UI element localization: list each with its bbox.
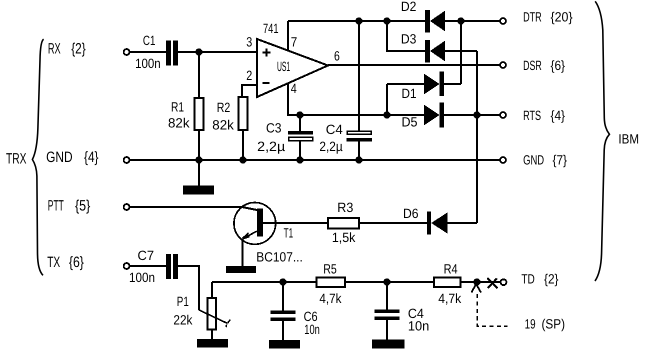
resistor R1 bbox=[194, 98, 203, 130]
ground symbol under C6 bbox=[269, 340, 300, 349]
svg-text:{4}: {4} bbox=[551, 108, 566, 123]
capacitor C7 bbox=[166, 254, 178, 279]
wire PTT to T1 base bbox=[130, 207, 257, 210]
svg-text:R1: R1 bbox=[171, 100, 184, 115]
node ground/R1 bbox=[195, 156, 202, 163]
wire D5 cathode to RTS bbox=[444, 114, 500, 116]
potentiometer P1 wiper arrow bbox=[199, 310, 228, 323]
op-amp U1 triangle bbox=[257, 39, 328, 97]
wire D1 anode lead bbox=[387, 83, 424, 85]
svg-text:{6}: {6} bbox=[69, 254, 84, 271]
svg-text:4,7k: 4,7k bbox=[438, 291, 461, 306]
svg-text:C1: C1 bbox=[143, 33, 156, 48]
svg-text:{5}: {5} bbox=[75, 197, 90, 214]
brace IBM right bbox=[595, 1, 609, 281]
svg-text:22k: 22k bbox=[173, 312, 192, 327]
svg-text:1,5k: 1,5k bbox=[332, 230, 356, 245]
svg-text:82k: 82k bbox=[168, 115, 190, 130]
svg-text:D1: D1 bbox=[402, 86, 417, 101]
svg-text:{2}: {2} bbox=[544, 271, 559, 286]
node row/C6 bbox=[279, 278, 286, 285]
svg-text:2,2µ: 2,2µ bbox=[257, 139, 285, 154]
wire pin 7 to top rail bbox=[287, 21, 289, 51]
svg-text:(SP): (SP) bbox=[542, 317, 566, 332]
terminal TD bbox=[501, 279, 507, 285]
svg-text:2,2µ: 2,2µ bbox=[319, 139, 342, 154]
svg-text:R4: R4 bbox=[444, 261, 458, 276]
svg-text:741: 741 bbox=[263, 21, 279, 36]
terminal DTR bbox=[500, 18, 506, 24]
svg-text:P1: P1 bbox=[177, 294, 189, 309]
svg-text:RTS: RTS bbox=[523, 108, 541, 123]
op-amp plus sign bbox=[263, 49, 271, 57]
svg-text:{2}: {2} bbox=[71, 40, 86, 57]
svg-text:10n: 10n bbox=[408, 319, 429, 334]
ground symbol under C4 bbox=[372, 340, 404, 349]
svg-text:100n: 100n bbox=[129, 270, 155, 285]
wire node to R1 bbox=[198, 52, 200, 98]
transistor T1 bbox=[234, 203, 276, 245]
capacitor C4 (10n) bbox=[386, 282, 388, 309]
arrowhead under TD node bbox=[471, 285, 481, 293]
diode D3 bbox=[425, 40, 445, 63]
wire R2 to ground rail bbox=[242, 130, 244, 160]
wire D2 to DTR node bbox=[445, 20, 500, 22]
wire D1 cathode to DTR node bbox=[444, 21, 461, 84]
node top rail / C4 bbox=[355, 17, 362, 24]
svg-text:R5: R5 bbox=[323, 261, 337, 276]
svg-text:BC107...: BC107... bbox=[256, 250, 303, 265]
svg-text:{6}: {6} bbox=[551, 58, 566, 73]
diode D2 bbox=[425, 10, 445, 33]
svg-text:6: 6 bbox=[334, 49, 340, 64]
capacitor C1 bbox=[166, 41, 178, 66]
svg-text:RX: RX bbox=[48, 40, 61, 57]
svg-text:GND: GND bbox=[46, 149, 73, 166]
svg-text:4,7k: 4,7k bbox=[319, 291, 341, 306]
terminal GND right bbox=[500, 157, 506, 163]
wire P1 bottom to ground bbox=[211, 330, 213, 340]
svg-text:D6: D6 bbox=[403, 206, 419, 221]
svg-text:D2: D2 bbox=[401, 0, 417, 14]
resistor R5 bbox=[317, 278, 345, 287]
potentiometer P1 body bbox=[207, 298, 216, 329]
svg-text:19: 19 bbox=[525, 317, 536, 332]
wire T1 emitter to ground bbox=[242, 239, 244, 266]
svg-text:T1: T1 bbox=[284, 226, 294, 241]
svg-text:GND: GND bbox=[523, 152, 544, 167]
svg-text:US1: US1 bbox=[277, 59, 290, 74]
node RTS / right vertical bbox=[473, 111, 480, 118]
node ground/C4 bbox=[355, 156, 362, 163]
resistor R4 bbox=[434, 278, 461, 287]
ground symbol under T1 bbox=[226, 266, 256, 273]
node pin4 row / D1 branch bbox=[383, 111, 390, 118]
svg-text:TD: TD bbox=[521, 271, 535, 286]
wire R4 to TD terminal bbox=[461, 281, 501, 283]
svg-text:100n: 100n bbox=[135, 56, 161, 71]
wire RX terminal to C1 bbox=[130, 51, 166, 53]
wire TX terminal to C7 bbox=[130, 265, 166, 267]
wire R5 to R4 bbox=[345, 281, 434, 283]
svg-text:D5: D5 bbox=[402, 114, 418, 129]
wire T1 collector to R3 bbox=[263, 222, 328, 224]
wire op-amp output to DSR bbox=[328, 64, 500, 66]
diode D1 bbox=[424, 72, 444, 97]
node top rail / D3 branch bbox=[383, 17, 390, 24]
svg-text:7: 7 bbox=[291, 35, 298, 50]
svg-text:DTR: DTR bbox=[523, 10, 542, 25]
svg-text:DSR: DSR bbox=[523, 58, 542, 73]
svg-text:4: 4 bbox=[291, 81, 297, 96]
wire R1 to ground rail bbox=[198, 130, 200, 160]
op-amp minus sign bbox=[263, 82, 270, 84]
svg-text:3: 3 bbox=[246, 35, 252, 50]
capacitor C3 bbox=[299, 115, 301, 131]
svg-text:82k: 82k bbox=[212, 118, 234, 133]
svg-text:TX: TX bbox=[47, 254, 60, 271]
svg-text:C4: C4 bbox=[326, 122, 343, 137]
node TD junction bbox=[473, 278, 480, 285]
svg-text:10n: 10n bbox=[304, 322, 320, 337]
ground symbol under rail bbox=[198, 160, 200, 186]
node ground/C3 bbox=[296, 156, 303, 163]
diode D6 bbox=[427, 212, 448, 235]
svg-text:TRX: TRX bbox=[6, 151, 27, 168]
wire P1 top to signal row bbox=[211, 282, 213, 298]
capacitor C4 (2,2u) bbox=[358, 21, 360, 131]
resistor R2 bbox=[239, 97, 248, 130]
wire C7 to P1 wiper bbox=[178, 266, 199, 310]
dashed wire to 19 (SP) bbox=[477, 294, 508, 326]
svg-text:D3: D3 bbox=[401, 32, 417, 47]
svg-text:R3: R3 bbox=[337, 200, 353, 215]
terminal TX bbox=[124, 263, 130, 269]
capacitor C6 bbox=[282, 282, 284, 310]
brace TRX left bbox=[32, 39, 43, 275]
svg-text:C7: C7 bbox=[138, 248, 155, 263]
node pin4 row / C3 bbox=[296, 111, 303, 118]
node junction C1/R1 bbox=[195, 48, 202, 55]
svg-text:{7}: {7} bbox=[553, 152, 568, 167]
T1 emitter bbox=[242, 231, 257, 239]
svg-text:PTT: PTT bbox=[48, 197, 64, 214]
X break mark on TD wire bbox=[487, 278, 497, 288]
terminal RX bbox=[124, 49, 130, 55]
svg-text:C3: C3 bbox=[266, 121, 282, 136]
svg-text:IBM: IBM bbox=[618, 132, 639, 147]
node DTR / D1 bbox=[457, 17, 464, 24]
wire top rail to D2 bbox=[288, 20, 425, 22]
terminal GND left bbox=[124, 157, 130, 163]
svg-text:{20}: {20} bbox=[551, 10, 574, 25]
wire pin 4 row to D5 bbox=[288, 83, 424, 115]
wire signal row P1 to R5 bbox=[212, 281, 317, 283]
wire D3 branch from top rail bbox=[387, 21, 425, 51]
terminal DSR bbox=[500, 62, 506, 68]
wire D3 anode to right vertical bbox=[445, 50, 477, 52]
svg-text:R2: R2 bbox=[217, 100, 231, 115]
ground rail bbox=[130, 159, 500, 161]
terminal PTT bbox=[124, 204, 130, 210]
wire op-amp pin 2 stub bbox=[242, 85, 257, 97]
wire R3 to D6 bbox=[359, 222, 427, 224]
wire C1 to op-amp pin 3 bbox=[178, 51, 257, 53]
svg-text:{4}: {4} bbox=[84, 149, 99, 166]
terminal RTS bbox=[500, 112, 506, 118]
diode D5 bbox=[424, 103, 444, 128]
node row/C4 10n bbox=[383, 278, 390, 285]
wire D1 branch vertical bbox=[386, 84, 388, 115]
wire vertical D3/RTS/D6 bbox=[476, 51, 478, 223]
wire D6 to right vertical bbox=[448, 222, 478, 224]
ground symbol under P1 bbox=[197, 339, 228, 348]
svg-text:2: 2 bbox=[246, 68, 252, 83]
node ground/R2 bbox=[239, 156, 246, 163]
resistor R3 bbox=[328, 218, 359, 228]
